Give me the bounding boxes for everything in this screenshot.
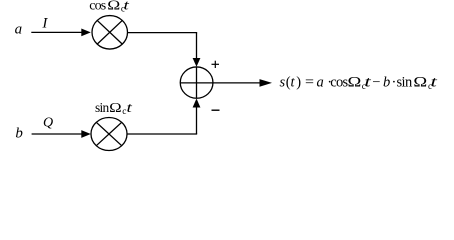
- svg-text:b: b: [15, 126, 23, 142]
- svg-text:−: −: [372, 75, 380, 91]
- svg-text:cos: cos: [89, 0, 105, 13]
- svg-text:t: t: [364, 75, 372, 91]
- svg-text:t: t: [127, 101, 134, 116]
- svg-text:b: b: [383, 75, 390, 91]
- svg-text:Ω: Ω: [109, 101, 122, 116]
- svg-text:s: s: [280, 75, 286, 91]
- svg-text:a: a: [317, 75, 324, 91]
- svg-text:sin: sin: [397, 75, 413, 91]
- svg-text:): ): [296, 75, 301, 91]
- svg-text:cos: cos: [330, 75, 348, 91]
- svg-text:t: t: [124, 0, 131, 13]
- svg-text:Ω: Ω: [413, 75, 427, 91]
- svg-text:I: I: [41, 15, 48, 31]
- svg-text:t: t: [291, 75, 296, 91]
- svg-text:Q: Q: [43, 116, 53, 131]
- svg-text:t: t: [431, 75, 439, 91]
- svg-text:sin: sin: [95, 100, 110, 115]
- svg-text:Ω: Ω: [348, 75, 362, 91]
- svg-text:a: a: [15, 22, 23, 38]
- svg-text:=: =: [305, 75, 314, 91]
- svg-text:Ω: Ω: [107, 0, 120, 13]
